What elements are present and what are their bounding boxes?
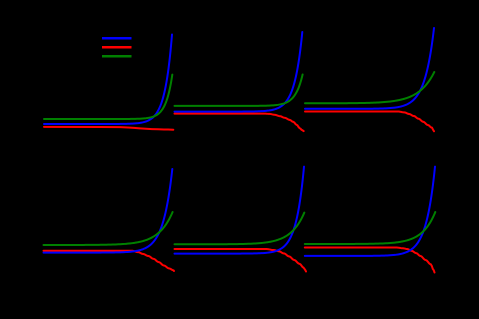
subplot 1 red curve [44, 127, 173, 130]
subplot 2 blue curve [175, 32, 303, 112]
legend line blue [102, 37, 132, 40]
subplot 2 green curve [175, 75, 303, 106]
subplot 5 red curve [175, 249, 307, 272]
subplot 4 red curve [44, 251, 175, 271]
subplot 1 blue curve [44, 35, 172, 125]
subplot 6 blue curve [305, 167, 435, 256]
subplot 2 red curve [175, 114, 304, 132]
subplot 6 red curve [305, 248, 435, 273]
subplot 5 green curve [175, 213, 305, 245]
legend line red [102, 46, 132, 49]
subplot 3 red curve [305, 112, 434, 132]
subplot 4 blue curve [44, 169, 173, 253]
subplot 4 green curve [44, 212, 173, 245]
subplot 3 green curve [305, 72, 434, 103]
legend line green [102, 55, 132, 58]
subplot 6 green curve [305, 212, 436, 244]
subplot 1 green curve [44, 75, 172, 119]
subplot 5 blue curve [175, 167, 305, 254]
subplot 3 blue curve [305, 28, 434, 109]
